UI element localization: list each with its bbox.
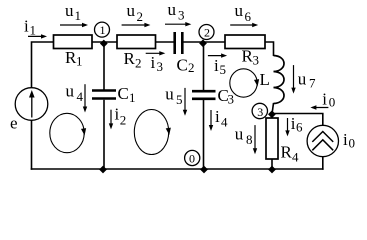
arrow u5	[184, 88, 186, 114]
svg-text:2: 2	[137, 9, 144, 24]
svg-text:4: 4	[221, 114, 228, 129]
svg-text:3: 3	[157, 59, 164, 74]
wire top-left corner to R1	[31, 41, 54, 88]
arrow u2	[122, 24, 149, 26]
svg-text:u: u	[298, 69, 307, 88]
svg-text:0: 0	[189, 152, 195, 166]
svg-text:R: R	[124, 49, 136, 68]
wire C2 to R3	[184, 41, 226, 43]
junction node 3	[268, 110, 276, 118]
svg-text:3: 3	[253, 53, 260, 68]
arrow i5	[208, 55, 225, 57]
arrow u6	[230, 24, 256, 26]
svg-text:C: C	[118, 84, 129, 103]
capacitor C1	[92, 91, 116, 99]
voltage source e	[15, 88, 48, 121]
arrow i1	[28, 35, 45, 37]
mesh current loop A	[50, 113, 84, 152]
svg-text:1: 1	[76, 54, 83, 69]
arrow u3	[165, 23, 189, 25]
arrow u4	[84, 84, 86, 110]
svg-text:2: 2	[135, 56, 142, 71]
svg-text:u: u	[66, 82, 75, 101]
bottom wire	[31, 168, 324, 170]
arrow u8	[254, 125, 256, 152]
wire node 3 to current source	[272, 114, 324, 126]
svg-text:2: 2	[204, 26, 210, 40]
wire current source bottom	[322, 157, 324, 170]
node 0	[185, 150, 200, 165]
svg-text:7: 7	[309, 76, 316, 91]
wire C1 down	[103, 100, 105, 169]
arrow i2	[110, 110, 112, 128]
wire C3 down	[203, 100, 205, 169]
svg-text:8: 8	[246, 132, 253, 147]
svg-text:i: i	[343, 130, 348, 149]
junction R4 bottom	[268, 166, 276, 174]
svg-text:u: u	[65, 1, 74, 20]
svg-text:L: L	[260, 70, 270, 89]
svg-text:1: 1	[100, 23, 106, 37]
svg-text:6: 6	[296, 119, 303, 134]
arrow i6	[287, 118, 289, 134]
resistor R1	[54, 35, 93, 49]
svg-text:e: e	[10, 114, 18, 133]
svg-text:R: R	[281, 143, 293, 162]
node 1	[95, 22, 110, 37]
svg-text:3: 3	[257, 105, 263, 119]
capacitor C3	[192, 91, 216, 99]
svg-text:i: i	[151, 53, 156, 72]
wire R2 to C2	[156, 41, 175, 43]
arrow u7	[293, 65, 295, 92]
wire L to node 3	[272, 103, 274, 114]
mesh current loop C	[230, 69, 257, 97]
svg-text:0: 0	[329, 95, 336, 110]
svg-text:i: i	[215, 107, 220, 126]
svg-text:u: u	[127, 1, 136, 20]
junction C1 bottom	[99, 166, 107, 174]
svg-text:2: 2	[188, 60, 195, 75]
svg-text:u: u	[235, 1, 244, 20]
svg-text:5: 5	[176, 92, 183, 107]
node 2	[199, 25, 214, 40]
current source i0	[307, 125, 338, 156]
svg-text:0: 0	[349, 136, 356, 151]
svg-text:C: C	[177, 56, 188, 75]
resistor R3	[225, 35, 265, 49]
resistor R2	[117, 35, 156, 49]
svg-text:3: 3	[178, 8, 185, 23]
arrow u1	[60, 24, 86, 26]
svg-text:1: 1	[75, 8, 82, 23]
capacitor C2	[175, 32, 183, 54]
resistor R4	[271, 115, 273, 171]
svg-text:4: 4	[77, 89, 84, 104]
junction node 2	[199, 39, 207, 47]
node 3	[252, 103, 267, 118]
arrow i4	[210, 110, 212, 129]
svg-text:1: 1	[129, 90, 136, 105]
junction node 0	[200, 166, 208, 174]
mesh current loop B	[134, 110, 168, 155]
svg-text:2: 2	[120, 113, 127, 128]
svg-text:5: 5	[220, 62, 227, 77]
wire node1 down	[103, 43, 105, 90]
wire e to bottom	[31, 120, 33, 170]
svg-text:i: i	[322, 89, 327, 108]
svg-text:u: u	[235, 125, 244, 144]
inductor L	[274, 56, 285, 104]
arrow i3	[146, 52, 164, 54]
arrow i0 top	[312, 107, 328, 109]
wire node2 down	[203, 43, 205, 91]
junction node 1	[100, 40, 108, 48]
wire R1 to R2	[92, 41, 117, 43]
svg-text:i: i	[214, 56, 219, 75]
wire R3 to corner	[265, 41, 274, 56]
svg-text:3: 3	[228, 92, 235, 107]
svg-text:6: 6	[245, 9, 252, 24]
svg-text:i: i	[24, 17, 29, 36]
svg-text:1: 1	[30, 23, 37, 38]
svg-text:4: 4	[292, 150, 299, 165]
svg-text:u: u	[168, 0, 177, 19]
svg-text:u: u	[165, 84, 174, 103]
svg-text:i: i	[115, 104, 120, 123]
